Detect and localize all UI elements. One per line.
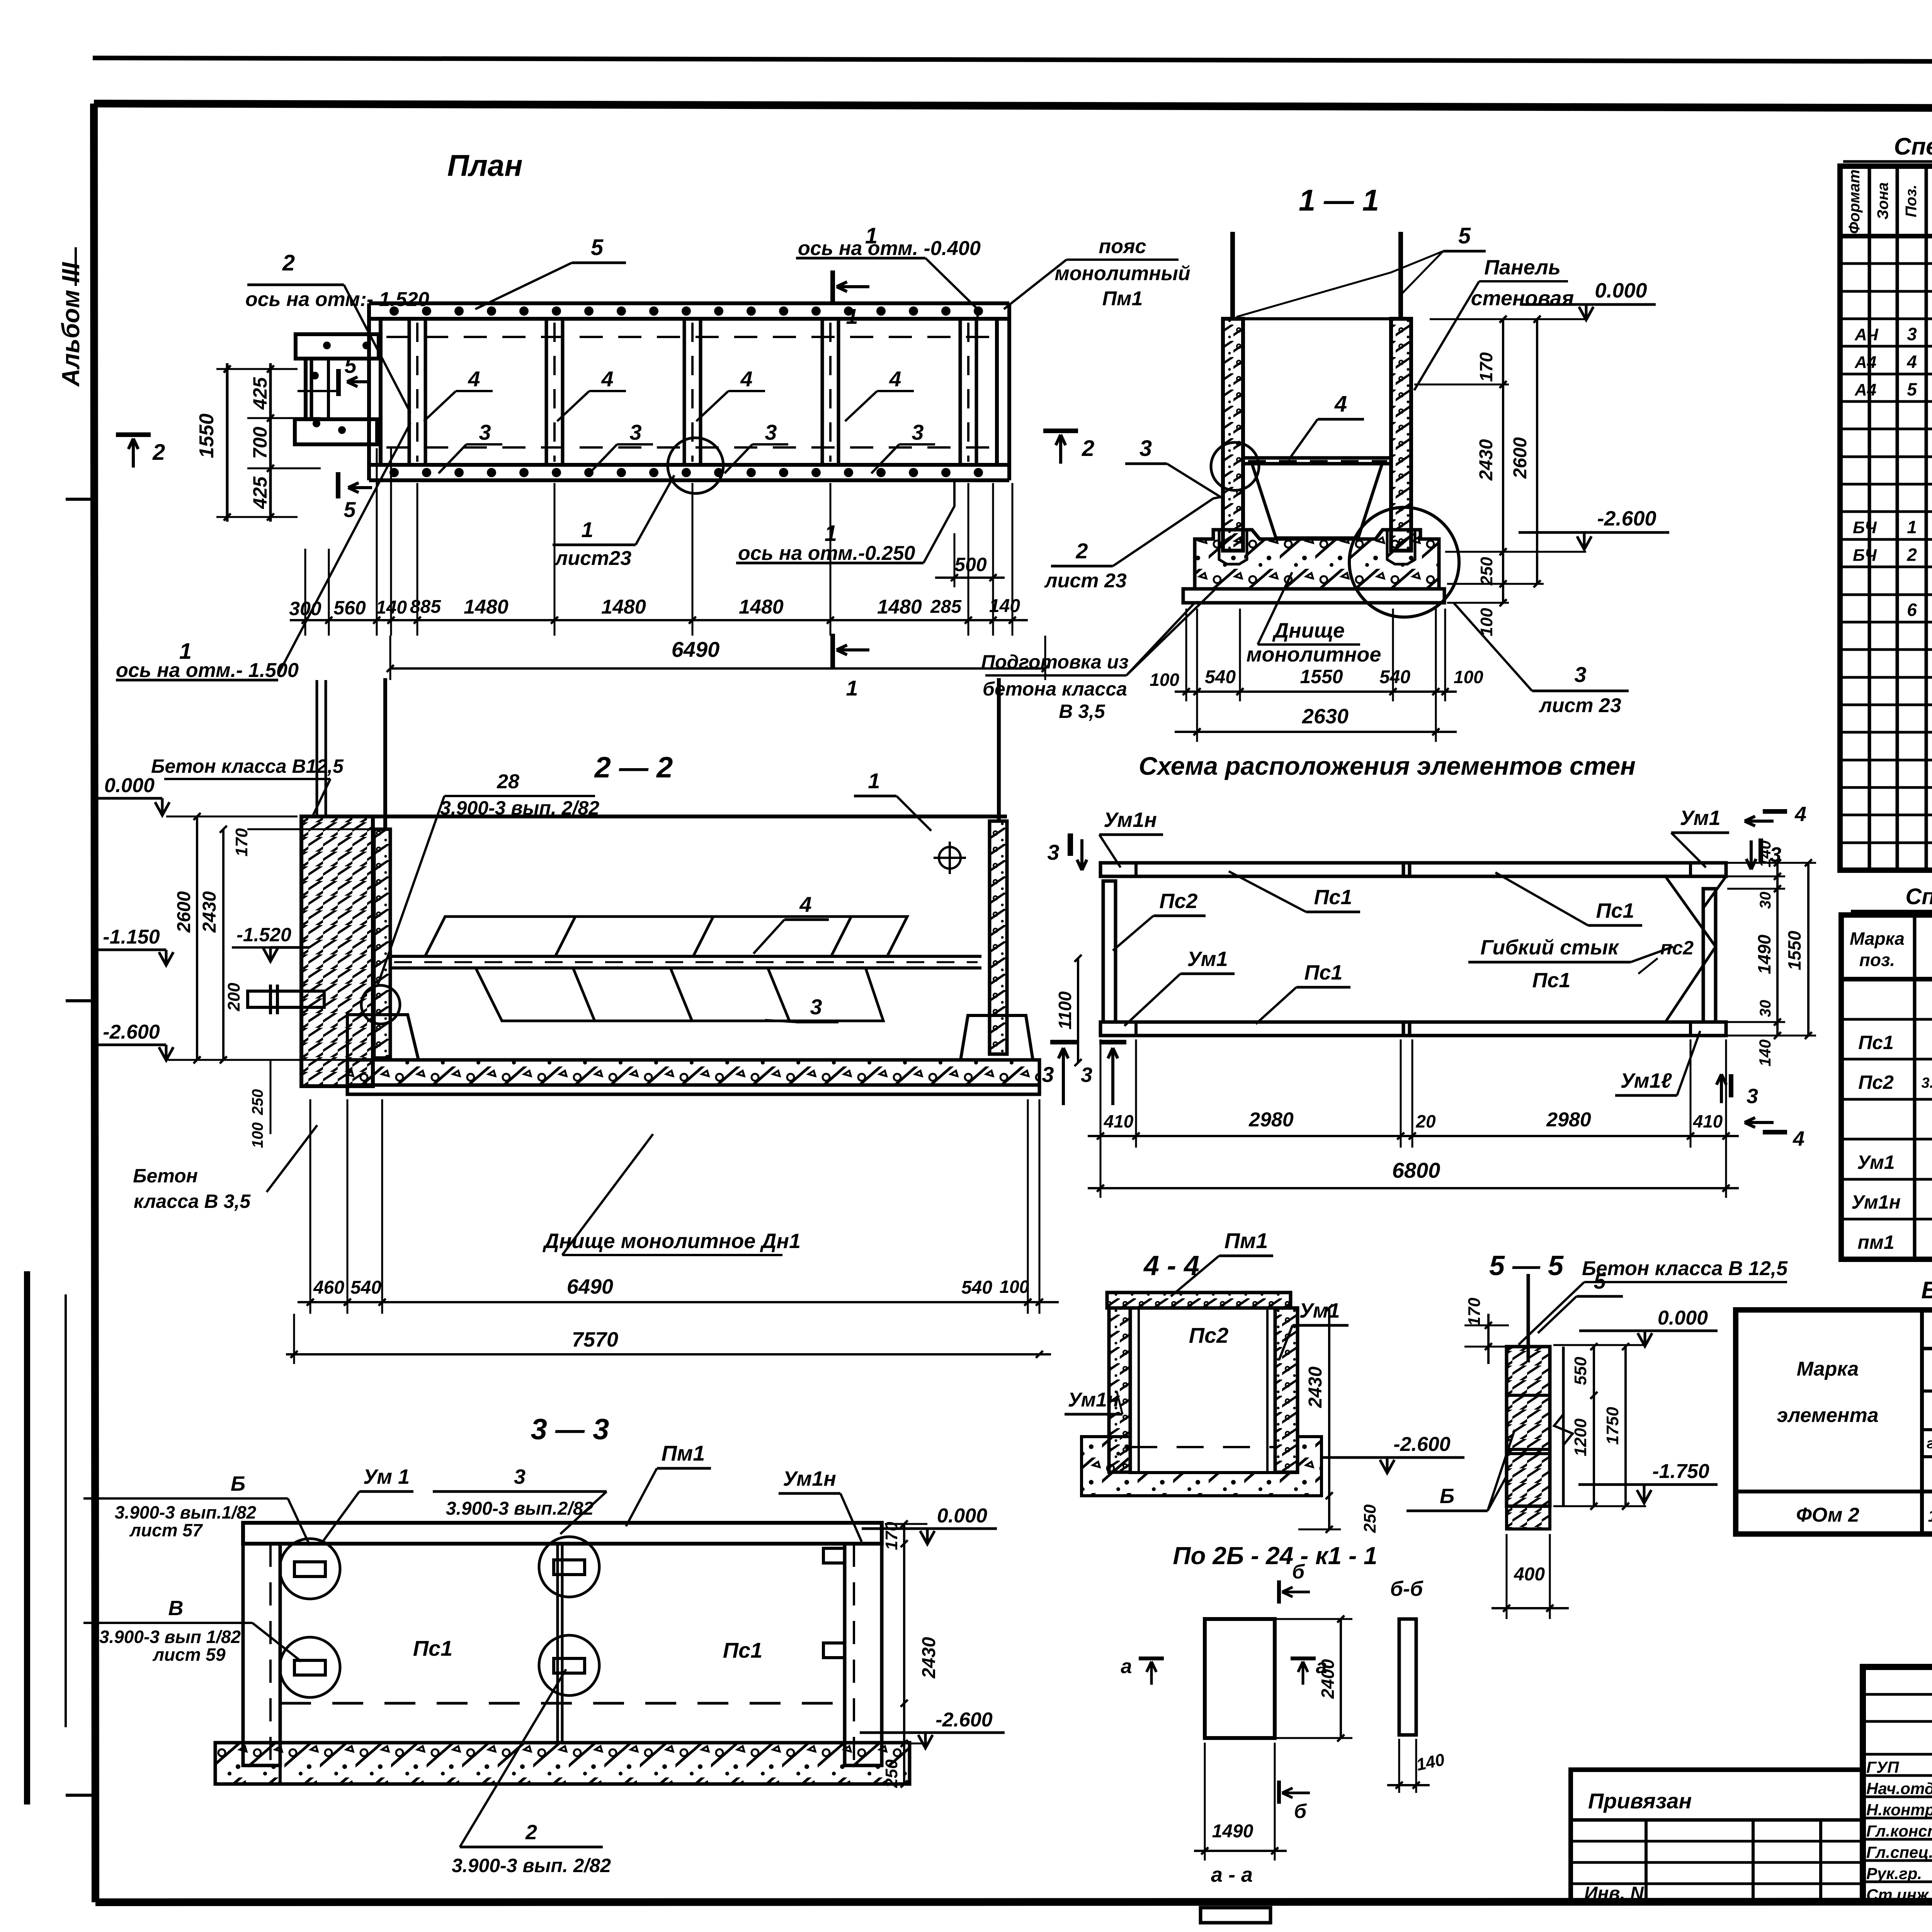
- svg-text:250: 250: [1361, 1504, 1379, 1533]
- plan total dim 6490: [390, 667, 1045, 670]
- sec2 floor top line: [390, 1058, 961, 1061]
- svg-text:3.900-3 вып.1/82: 3.900-3 вып.1/82: [115, 1502, 257, 1522]
- sec2 joint detail circle: [361, 985, 400, 1024]
- svg-text:Бетон класса В 12,5: Бетон класса В 12,5: [1582, 1257, 1788, 1280]
- schema section mark 3 bottom-left: [1099, 1040, 1126, 1044]
- svg-text:170: 170: [1465, 1298, 1484, 1326]
- svg-text:пм1: пм1: [1857, 1231, 1894, 1253]
- page top edge line: [93, 58, 1932, 63]
- svg-text:ось на отм:- 1.520: ось на отм:- 1.520: [245, 288, 429, 311]
- svg-text:Ум1: Ум1: [1857, 1151, 1895, 1173]
- table2 column lines: [1913, 915, 1917, 1259]
- svg-text:ось на отм. -0.400: ось на отм. -0.400: [798, 237, 981, 260]
- svg-text:1750: 1750: [1603, 1407, 1622, 1445]
- svg-text:Пс2: Пс2: [1858, 1071, 1894, 1093]
- svg-text:3: 3: [1747, 1085, 1758, 1108]
- svg-text:Пс1: Пс1: [1314, 886, 1352, 909]
- svg-text:410: 410: [1693, 1111, 1723, 1131]
- svg-text:Нач.отд.: Нач.отд.: [1866, 1779, 1932, 1798]
- sec2 left vertical dims: [196, 816, 198, 1060]
- svg-text:2: 2: [1075, 539, 1088, 563]
- svg-text:-2.600: -2.600: [1393, 1433, 1451, 1456]
- svg-text:Бетон: Бетон: [133, 1165, 198, 1187]
- svg-text:Днище монолитное Дн1: Днище монолитное Дн1: [543, 1230, 801, 1253]
- svg-text:Марка: Марка: [1850, 929, 1905, 949]
- svg-text:поз.: поз.: [1859, 950, 1895, 970]
- sec1 right dims: [1502, 319, 1504, 603]
- svg-text:ось на отм.-0.250: ось на отм.-0.250: [738, 542, 915, 565]
- table2 header row: [1841, 977, 1932, 981]
- svg-text:-1.520: -1.520: [236, 924, 291, 946]
- d55 dim 400 bottom: [1506, 1534, 1508, 1619]
- dim 2400: [1340, 1619, 1342, 1738]
- table2 row lines: [1841, 1018, 1932, 1021]
- svg-text:Пс2: Пс2: [1160, 889, 1198, 913]
- svg-text:2430: 2430: [919, 1637, 939, 1679]
- svg-text:Подготовка из: Подготовка из: [981, 651, 1129, 673]
- svg-text:А4: А4: [1854, 380, 1876, 399]
- svg-text:3: 3: [629, 420, 641, 444]
- plan section mark 5 bottom: [336, 472, 340, 498]
- sec2 gasket pipe left: [248, 991, 324, 1007]
- sec2 bottom dim extensions: [310, 1099, 311, 1314]
- drawing frame: [94, 104, 1932, 110]
- table3 outer frame: [1736, 1310, 1932, 1534]
- svg-text:425: 425: [249, 476, 271, 509]
- svg-text:4: 4: [1793, 1127, 1804, 1150]
- svg-text:-1.750: -1.750: [1652, 1460, 1709, 1483]
- svg-text:лист23: лист23: [554, 547, 631, 570]
- svg-text:3: 3: [514, 1465, 526, 1488]
- sec1 detail circle big: [1349, 507, 1459, 617]
- svg-text:Зона: Зона: [1874, 182, 1891, 220]
- svg-text:Пм1: Пм1: [662, 1441, 705, 1465]
- plan section mark 2 left: [116, 432, 151, 437]
- sec1 top tie line: [1243, 317, 1391, 320]
- d55 second layer line: [1562, 1347, 1565, 1506]
- sec1 footing wall shoes: [1219, 530, 1247, 564]
- svg-text:Ст.инж.: Ст.инж.: [1866, 1886, 1932, 1904]
- left margin fold ticks: [66, 498, 95, 501]
- table3 sizes row: [1922, 1490, 1932, 1493]
- svg-text:Ум 1: Ум 1: [363, 1465, 410, 1488]
- svg-text:7570: 7570: [572, 1328, 618, 1351]
- sec3 right wall: [845, 1544, 882, 1765]
- svg-text:Рук.гр.: Рук.гр.: [1866, 1864, 1922, 1883]
- svg-text:а: а: [1121, 1655, 1132, 1678]
- plan bottom band: [369, 463, 1009, 467]
- svg-text:2430: 2430: [1476, 439, 1497, 481]
- svg-text:3.900-3 вып 1/82: 3.900-3 вып 1/82: [99, 1627, 241, 1647]
- sec2 sump panels below slab: [476, 968, 883, 1021]
- svg-text:6: 6: [1907, 600, 1917, 620]
- sec2 right panel shoe: [961, 1015, 1033, 1060]
- svg-text:Пс1: Пс1: [1304, 961, 1343, 984]
- b section mark bottom: [1277, 1781, 1281, 1804]
- schema left dim 1100: [1077, 958, 1079, 1063]
- schema top band: [1100, 863, 1726, 876]
- svg-text:1: 1: [868, 769, 880, 793]
- sec2 axis point mark: [939, 847, 961, 869]
- svg-text:пс2: пс2: [1660, 937, 1694, 959]
- svg-text:3: 3: [1907, 324, 1917, 344]
- svg-text:элемента: элемента: [1777, 1404, 1878, 1427]
- d55 column blocks: [1507, 1347, 1550, 1506]
- table1 row lines: [1840, 262, 1932, 265]
- svg-text:140: 140: [989, 596, 1020, 616]
- sec1 right wall: [1391, 319, 1411, 551]
- svg-text:Панель: Панель: [1484, 256, 1561, 279]
- svg-text:5: 5: [591, 235, 604, 260]
- svg-text:бетона класса: бетона класса: [983, 678, 1127, 700]
- svg-text:3. 900-3 вып.1/82; 3/82 лист21: 3. 900-3 вып.1/82; 3/82 лист21: [1922, 1075, 1932, 1091]
- sec1 dim 2630: [1175, 731, 1457, 733]
- a section mark right: [1291, 1656, 1316, 1660]
- schema left panel: [1103, 881, 1116, 1022]
- svg-text:3: 3: [1574, 662, 1586, 687]
- svg-text:-2.600: -2.600: [103, 1021, 160, 1043]
- svg-text:Бетон класса В12,5: Бетон класса В12,5: [151, 755, 344, 777]
- b-b strip: [1399, 1619, 1416, 1735]
- plan section mark 5 top: [336, 369, 341, 396]
- svg-text:4: 4: [1794, 803, 1806, 826]
- svg-text:Ум1н: Ум1н: [1104, 808, 1157, 832]
- svg-text:монолитный: монолитный: [1054, 262, 1190, 285]
- svg-text:3: 3: [765, 420, 777, 444]
- svg-text:-2.600: -2.600: [1597, 507, 1656, 530]
- sec3 embed plates with circles center: [539, 1537, 599, 1597]
- svg-text:Пм1: Пм1: [1225, 1228, 1268, 1253]
- title block signature rows: [1863, 1693, 1932, 1696]
- svg-text:300: 300: [289, 598, 321, 619]
- svg-text:лист 59: лист 59: [152, 1645, 226, 1665]
- svg-text:Ум1: Ум1: [1187, 947, 1228, 971]
- svg-text:ГУП: ГУП: [1866, 1758, 1899, 1776]
- sec1 rebar right: [1398, 232, 1403, 319]
- sec3 embed plates with circles left wall: [280, 1539, 340, 1599]
- schema right diagonals: [1665, 876, 1716, 1022]
- svg-text:6490: 6490: [567, 1275, 613, 1298]
- svg-text:4: 4: [799, 892, 811, 917]
- sec2 sump panels above slab: [425, 917, 907, 956]
- svg-text:885: 885: [410, 597, 441, 617]
- svg-text:1550: 1550: [1784, 930, 1804, 970]
- sec2 rebar stubs above walls: [383, 678, 387, 829]
- svg-text:179,0: 179,0: [1928, 1507, 1932, 1526]
- svg-text:5: 5: [344, 497, 356, 522]
- svg-text:-1.150: -1.150: [103, 926, 160, 948]
- svg-text:3.900-3 вып. 2/82: 3.900-3 вып. 2/82: [440, 797, 599, 819]
- svg-text:1550: 1550: [1300, 666, 1343, 687]
- table3 marka elementa cell: [1920, 1310, 1924, 1534]
- svg-text:Альбом III: Альбом III: [57, 262, 85, 387]
- sec2 top line: [301, 815, 1007, 818]
- svg-text:Ум1ℓ: Ум1ℓ: [1620, 1069, 1672, 1092]
- svg-text:30: 30: [1757, 892, 1774, 909]
- svg-text:100: 100: [1477, 608, 1496, 636]
- svg-text:2: 2: [152, 440, 165, 465]
- svg-text:1: 1: [1907, 517, 1917, 537]
- svg-text:гост5781-82*: гост5781-82*: [1927, 1435, 1932, 1452]
- svg-text:0.000: 0.000: [104, 774, 155, 797]
- svg-text:Ум1: Ум1: [1299, 1299, 1340, 1322]
- svg-text:100: 100: [249, 1122, 266, 1148]
- svg-text:2980: 2980: [1248, 1109, 1294, 1131]
- svg-text:460: 460: [313, 1277, 344, 1298]
- sec3 embed plates right wall: [823, 1548, 845, 1563]
- svg-text:ФОм 2: ФОм 2: [1796, 1504, 1859, 1526]
- svg-text:0.000: 0.000: [1595, 279, 1647, 302]
- svg-text:540: 540: [961, 1277, 992, 1298]
- a section mark left: [1139, 1656, 1164, 1660]
- sec2 section mark 3 top right: [1068, 833, 1073, 856]
- d55 footing block: [1507, 1506, 1550, 1529]
- svg-text:0.000: 0.000: [937, 1505, 987, 1527]
- left margin scan artifact lines: [24, 1271, 30, 1804]
- sec1 bottom dims: [1185, 609, 1187, 701]
- d44 footing: [1082, 1437, 1321, 1496]
- svg-text:А4: А4: [1854, 353, 1876, 372]
- plan top band studs: [389, 306, 399, 316]
- svg-text:560: 560: [333, 597, 366, 619]
- svg-text:540: 540: [350, 1277, 381, 1298]
- svg-text:Пс1: Пс1: [723, 1638, 763, 1662]
- svg-text:б-б: б-б: [1390, 1577, 1423, 1600]
- svg-text:Пс1: Пс1: [1532, 969, 1571, 992]
- svg-text:Гл.спец.: Гл.спец.: [1866, 1843, 1932, 1861]
- svg-text:1550: 1550: [196, 413, 218, 458]
- svg-text:100: 100: [1454, 667, 1483, 687]
- schema section mark 3 bottom-right: [1729, 1074, 1733, 1097]
- schema top band end seps: [1134, 863, 1138, 876]
- svg-text:1480: 1480: [877, 596, 922, 618]
- sec3 left footing: [215, 1743, 280, 1784]
- d44 inner lines: [1138, 1308, 1140, 1472]
- svg-text:2400: 2400: [1318, 1659, 1338, 1699]
- svg-text:1480: 1480: [601, 596, 646, 618]
- b section mark top: [1277, 1580, 1281, 1604]
- d44 right strip: [1275, 1308, 1298, 1472]
- schema section mark 4 top-right: [1763, 809, 1787, 814]
- svg-text:170: 170: [882, 1522, 901, 1550]
- svg-text:Б: Б: [231, 1472, 245, 1495]
- svg-text:3.900-3 вып.2/82: 3.900-3 вып.2/82: [446, 1498, 594, 1519]
- svg-text:2630: 2630: [1302, 705, 1349, 728]
- plan bottom band studs: [389, 468, 399, 477]
- sec3 interior dashed line: [280, 1702, 845, 1705]
- plan bottom dim line row1: [290, 619, 1028, 621]
- svg-text:Пс1: Пс1: [1596, 899, 1634, 922]
- sec1 slab 4: [1243, 456, 1391, 460]
- svg-text:4 - 4: 4 - 4: [1143, 1250, 1199, 1281]
- sec2 bottom plate: [347, 1085, 1039, 1094]
- leader to axis 2: [344, 285, 410, 413]
- svg-text:700: 700: [249, 427, 271, 459]
- schema bottom band: [1100, 1022, 1726, 1036]
- a-a plate bar: [1201, 1908, 1270, 1923]
- sec2 total dim 7570: [286, 1353, 1051, 1355]
- plan left outlet channel web: [304, 359, 308, 419]
- svg-text:По 2Б - 24 - к1 - 1: По 2Б - 24 - к1 - 1: [1173, 1542, 1377, 1570]
- svg-text:1490: 1490: [1212, 1821, 1253, 1842]
- svg-text:БЧ: БЧ: [1853, 518, 1877, 537]
- svg-text:Днище: Днище: [1272, 619, 1345, 642]
- svg-text:6490: 6490: [672, 637, 720, 662]
- title block outer: [1863, 1667, 1932, 1902]
- plan section mark 1 bottom: [830, 634, 835, 668]
- svg-text:170: 170: [232, 828, 251, 857]
- svg-text:1200: 1200: [1571, 1418, 1590, 1456]
- sec1 rebar left: [1230, 232, 1235, 319]
- svg-text:410: 410: [1104, 1111, 1134, 1131]
- schema right dims: [1776, 863, 1779, 1036]
- svg-text:В: В: [168, 1597, 184, 1620]
- sec2 slab line 4: [390, 955, 981, 958]
- svg-text:140: 140: [1756, 1039, 1774, 1066]
- svg-text:100: 100: [1150, 670, 1179, 690]
- svg-text:4: 4: [1906, 352, 1917, 372]
- sec2 left panel shoe: [347, 1015, 418, 1060]
- leader: [636, 475, 674, 545]
- svg-text:Гл.констр.: Гл.констр.: [1866, 1822, 1932, 1840]
- svg-text:1 — 1: 1 — 1: [1299, 183, 1379, 217]
- svg-text:Ум1н: Ум1н: [783, 1467, 836, 1490]
- d44 dashed tie: [1130, 1446, 1275, 1448]
- svg-text:5: 5: [1458, 223, 1471, 248]
- svg-text:400: 400: [1514, 1564, 1545, 1585]
- svg-text:Привязан: Привязан: [1588, 1789, 1692, 1813]
- d44 dim 2430: [1328, 1308, 1330, 1496]
- svg-text:3: 3: [912, 420, 923, 444]
- svg-text:100: 100: [1000, 1277, 1029, 1297]
- svg-text:20: 20: [1415, 1111, 1436, 1131]
- d44 left strip: [1109, 1308, 1130, 1472]
- svg-text:б: б: [1294, 1800, 1307, 1823]
- svg-text:Ум1н: Ум1н: [1851, 1191, 1901, 1213]
- table3 armatura/prokat row: [1922, 1389, 1932, 1393]
- svg-text:1490: 1490: [1754, 934, 1774, 974]
- svg-text:Гибкий стык: Гибкий стык: [1480, 936, 1619, 959]
- sec3 bottom slab: [215, 1743, 910, 1784]
- plan detail circle: [668, 438, 723, 493]
- schema total 6800: [1088, 1187, 1739, 1189]
- sec1 sump trapezoid: [1252, 464, 1382, 538]
- svg-text:1480: 1480: [464, 596, 509, 618]
- svg-text:3 — 3: 3 — 3: [531, 1413, 609, 1446]
- table3 data row line: [1736, 1490, 1932, 1493]
- table3 class row: [1922, 1428, 1932, 1431]
- plan outlet extension line: [298, 390, 336, 392]
- svg-text:класса В 3,5: класса В 3,5: [134, 1190, 251, 1212]
- svg-text:пояс: пояс: [1099, 235, 1146, 258]
- svg-text:540: 540: [1205, 667, 1236, 687]
- svg-text:5 — 5: 5 — 5: [1489, 1250, 1564, 1281]
- schema bottom dims: [1100, 1039, 1102, 1148]
- svg-text:БЧ: БЧ: [1853, 546, 1877, 565]
- plan right end wall: [1007, 303, 1011, 480]
- sec1 detail circle small: [1211, 442, 1259, 490]
- sec1 bottom plate: [1183, 589, 1444, 603]
- svg-text:Ум1н: Ум1н: [1068, 1389, 1119, 1411]
- sec1 footing body: [1195, 530, 1439, 589]
- svg-text:1100: 1100: [1055, 991, 1075, 1029]
- sec3 center joint: [556, 1544, 559, 1743]
- svg-text:540: 540: [1379, 667, 1410, 687]
- svg-text:ось на отм.- 1.500: ось на отм.- 1.500: [116, 659, 299, 682]
- svg-text:250: 250: [1477, 557, 1496, 586]
- leader to axis 1: [278, 423, 410, 674]
- table3 gost row: [1922, 1455, 1932, 1458]
- schema section mark 4 bottom-right: [1763, 1130, 1787, 1134]
- svg-text:0.000: 0.000: [1658, 1307, 1708, 1329]
- table1 header row: [1840, 234, 1932, 238]
- svg-text:стеновая: стеновая: [1471, 287, 1574, 310]
- plan left outlet channel bottom flange: [295, 419, 377, 444]
- svg-text:2 — 2: 2 — 2: [594, 751, 673, 784]
- svg-text:а - а: а - а: [1211, 1863, 1253, 1886]
- svg-text:5: 5: [344, 353, 357, 378]
- svg-text:2430: 2430: [1305, 1366, 1326, 1408]
- svg-text:30: 30: [1757, 1000, 1774, 1017]
- schema right panel: [1703, 889, 1716, 1022]
- svg-text:Формат: Формат: [1846, 170, 1863, 234]
- svg-text:АЧ: АЧ: [1854, 325, 1879, 344]
- svg-text:1480: 1480: [739, 596, 784, 618]
- sec3 left wall: [243, 1544, 280, 1765]
- plan section mark 1 top: [830, 270, 835, 305]
- svg-text:5: 5: [1907, 379, 1917, 399]
- sec3 top band Pm1: [243, 1523, 882, 1544]
- plan section mark 2 right: [1043, 429, 1078, 433]
- svg-text:6800: 6800: [1392, 1158, 1440, 1182]
- svg-text:Спецификация к схеме располож: Спецификация к схеме расположения элемен…: [1905, 884, 1932, 909]
- leader to plan top right: [1004, 260, 1066, 309]
- svg-text:3: 3: [1042, 1062, 1054, 1087]
- svg-text:2: 2: [282, 250, 295, 276]
- svg-text:500: 500: [954, 554, 987, 575]
- sec2 left outer wall hatched: [301, 816, 373, 1086]
- title block privyazan box: [1571, 1770, 1863, 1902]
- table1 outer frame: [1840, 166, 1932, 870]
- plan outlet channel studs: [323, 342, 331, 349]
- leader: [925, 258, 978, 321]
- svg-text:Инв. N: Инв. N: [1584, 1883, 1644, 1904]
- svg-text:2: 2: [525, 1821, 537, 1844]
- sec3 right dims: [903, 1524, 905, 1784]
- plan left outlet channel top flange: [296, 334, 379, 359]
- plan bottom dim extension lines: [304, 549, 306, 636]
- sec2 section mark 3 bottom right: [1050, 1040, 1077, 1044]
- svg-text:лист 23: лист 23: [1538, 694, 1621, 717]
- svg-text:425: 425: [249, 377, 271, 410]
- svg-text:Н.контр.: Н.контр.: [1866, 1801, 1932, 1819]
- d55 rebar line: [1527, 1274, 1530, 1362]
- leader: [1414, 281, 1479, 390]
- svg-text:Поз.: Поз.: [1903, 185, 1920, 218]
- svg-text:3: 3: [1139, 436, 1152, 461]
- svg-text:Пс1: Пс1: [413, 1636, 453, 1660]
- svg-text:4: 4: [601, 367, 613, 391]
- svg-text:200: 200: [224, 983, 243, 1012]
- svg-text:250: 250: [882, 1759, 901, 1788]
- svg-text:Схема расположения элементов с: Схема расположения элементов стен: [1139, 752, 1636, 780]
- svg-text:Ведомость расхода стали н: Ведомость расхода стали на элемент, кг: [1921, 1277, 1932, 1304]
- svg-text:-2.600: -2.600: [935, 1709, 993, 1731]
- svg-text:4: 4: [1334, 391, 1347, 417]
- svg-text:1: 1: [846, 676, 858, 700]
- plan inner dashed chords: [386, 336, 993, 338]
- d44 top band Pm1 section: [1107, 1293, 1291, 1308]
